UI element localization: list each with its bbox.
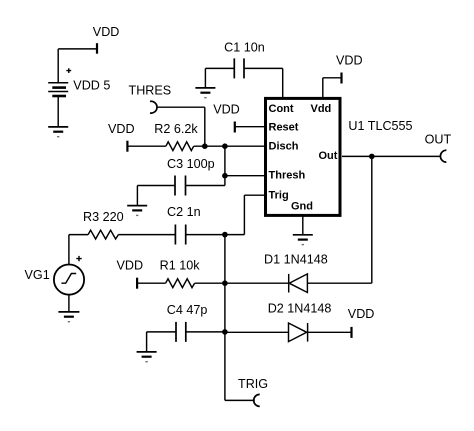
svg-text:C4 47p: C4 47p xyxy=(167,303,208,317)
svg-text:VDD: VDD xyxy=(93,25,120,39)
power port VDD (Reset pin) xyxy=(234,122,236,133)
power port VDD (R1 left) xyxy=(136,278,138,289)
svg-text:R1 10k: R1 10k xyxy=(160,258,201,272)
capacitor C4 47p xyxy=(176,322,186,342)
svg-text:D1 1N4148: D1 1N4148 xyxy=(264,253,328,267)
resistor R2 6.2k xyxy=(166,142,194,151)
wire Out node down to D1 xyxy=(307,156,371,283)
wire C4 left lead to ground xyxy=(147,332,176,352)
node junction (Out) xyxy=(369,154,375,160)
svg-text:Reset: Reset xyxy=(269,122,299,134)
diode D2 1N4148 xyxy=(289,323,308,342)
power port VDD (R2 left) xyxy=(126,141,128,152)
wire C1 right lead to Cont pin xyxy=(244,68,283,98)
wire main vertical node line xyxy=(224,235,226,401)
wire C3 left lead xyxy=(137,186,175,206)
node junction (R1/D1) xyxy=(222,280,228,286)
wire C1 left lead to ground xyxy=(205,68,234,88)
resistor R1 10k xyxy=(166,279,195,288)
wire battery top to VDD port xyxy=(58,49,97,83)
svg-text:C1 10n: C1 10n xyxy=(224,40,265,54)
svg-text:Disch: Disch xyxy=(269,141,299,153)
power port VDD (D2) xyxy=(350,327,352,338)
port OUT xyxy=(440,150,446,162)
wire Gnd pin to ground xyxy=(302,216,304,235)
wire R3 to C2 xyxy=(118,234,175,236)
svg-text:VG1: VG1 xyxy=(25,268,50,282)
diode D1 1N4148 xyxy=(289,274,308,293)
wire D2 cathode to VDD port xyxy=(308,331,352,333)
wire R3 left lead to VG1 xyxy=(69,235,88,265)
node junction (THRES/Disch) xyxy=(202,143,208,149)
wire C3 right lead xyxy=(186,185,225,187)
wire R2 to Disch pin xyxy=(194,145,264,147)
wire TRIG stub xyxy=(225,399,255,401)
svg-text:Vdd: Vdd xyxy=(311,103,332,115)
svg-text:VDD: VDD xyxy=(336,54,363,68)
power port VDD (battery top) xyxy=(96,43,98,54)
op-amp U1 TLC555 IC box xyxy=(266,98,341,215)
port TRIG xyxy=(254,394,260,406)
wire battery bottom to ground xyxy=(57,96,59,127)
battery V1 (VDD 5) xyxy=(48,68,71,96)
svg-text:TRIG: TRIG xyxy=(238,377,268,391)
wire THRES to Disch node xyxy=(157,107,205,146)
node junction (Thresh tap) xyxy=(222,173,228,179)
wire VDD port to R2 xyxy=(127,145,165,147)
wire Trig pin routing xyxy=(225,195,264,234)
svg-text:C2 1n: C2 1n xyxy=(167,205,201,219)
capacitor C3 100p xyxy=(175,176,186,196)
svg-text:THRES: THRES xyxy=(129,84,172,98)
wire Disch node down to C3 xyxy=(224,146,226,185)
svg-text:U1 TLC555: U1 TLC555 xyxy=(348,119,412,133)
capacitor C1 10n xyxy=(234,58,244,78)
svg-text:R2 6.2k: R2 6.2k xyxy=(154,122,198,136)
power port VDD (IC Vdd pin) xyxy=(340,73,342,84)
wire VDD port to R1 xyxy=(137,282,166,284)
svg-text:VDD: VDD xyxy=(348,307,375,321)
wire R1 to node xyxy=(195,282,225,284)
port THRES xyxy=(150,101,157,113)
node junction (C4/D2) xyxy=(222,329,228,335)
svg-text:Out: Out xyxy=(319,150,338,162)
wire C4 right lead xyxy=(186,331,225,333)
ground (C4) xyxy=(137,352,157,362)
ground (C3) xyxy=(127,206,147,216)
wire VDD port to Vdd pin xyxy=(323,78,342,98)
wire D1 cathode to node xyxy=(225,282,289,284)
wire VDD port to Reset pin xyxy=(235,126,264,128)
ground (battery) xyxy=(48,127,68,137)
svg-text:VDD: VDD xyxy=(108,122,135,136)
ground (IC Gnd) xyxy=(293,235,313,245)
svg-text:Gnd: Gnd xyxy=(291,201,313,213)
svg-text:OUT: OUT xyxy=(425,132,452,146)
node junction (Disch/C3 branch) xyxy=(222,143,228,149)
svg-text:Thresh: Thresh xyxy=(269,170,306,182)
svg-text:D2 1N4148: D2 1N4148 xyxy=(268,302,332,316)
wire C2 to Trig node xyxy=(186,234,225,236)
wire Thresh node to Thresh pin xyxy=(225,175,264,177)
svg-text:R3 220: R3 220 xyxy=(83,210,124,224)
svg-text:C3 100p: C3 100p xyxy=(167,157,215,171)
wire VG1 to ground xyxy=(68,295,70,312)
source VG1 xyxy=(54,256,84,295)
svg-text:Cont: Cont xyxy=(269,103,294,115)
wire D2 anode to node xyxy=(225,331,289,333)
ground (VG1) xyxy=(58,312,79,322)
resistor R3 220 xyxy=(88,230,118,239)
svg-text:Trig: Trig xyxy=(269,189,289,201)
wire Out pin to OUT port xyxy=(342,155,441,157)
svg-text:VDD: VDD xyxy=(213,103,240,117)
svg-text:VDD: VDD xyxy=(117,258,144,272)
svg-text:VDD 5: VDD 5 xyxy=(73,78,110,92)
node junction (C2/Trig) xyxy=(222,232,228,238)
ground (C1) xyxy=(195,88,215,98)
capacitor C2 1n xyxy=(175,225,185,245)
